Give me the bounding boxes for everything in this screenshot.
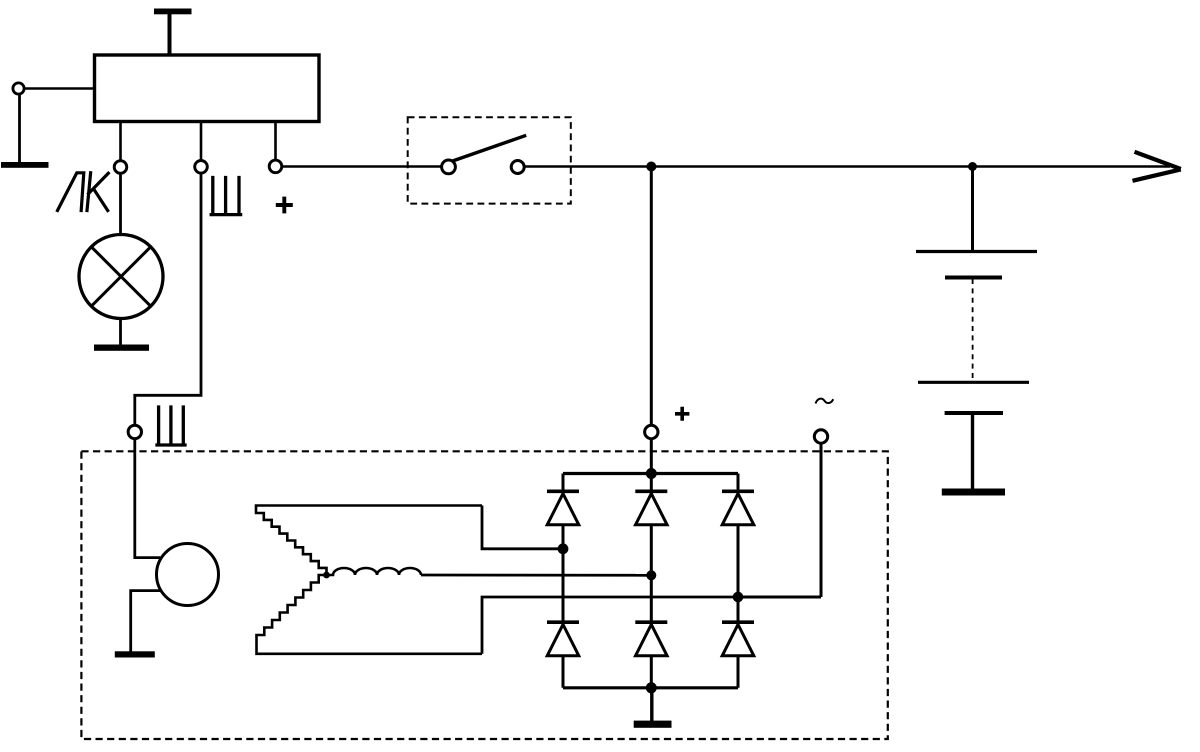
battery GB cell 2 long plate [918,381,1029,384]
wire (bridge plus terminal to top bus) [650,439,653,474]
wire (phase 2 output) [421,574,651,577]
wire (bottom bus) [563,686,738,689]
wire (lower brush to ground) [131,591,161,652]
diode VD3 [722,491,754,525]
battery GB cell 1 long plate [916,250,1037,253]
ground (top, above regulator) [154,9,192,56]
lamp HL [79,235,163,319]
label plus (bridge) [675,407,689,421]
diode VD1 [547,491,579,525]
node (main line / battery branch) [968,162,977,171]
wire (lamp to ground) [119,319,122,346]
node (phase 3 / column 3) [733,592,744,603]
diode VD5 [635,622,667,656]
wire (generator Sh terminal to upper brush) [135,439,160,558]
switch contact right [511,161,524,174]
wire (phase 1 output) [482,506,563,549]
wire (main line down to bridge plus terminal) [650,167,653,426]
wire (plus terminal to switch) [282,165,442,168]
diode VD6 [722,622,754,656]
arrow (output) [1133,152,1181,181]
terminal Sh [195,161,208,174]
regulator box U1 [95,55,320,122]
stator winding phase 3 (lower zigzag) [257,575,483,654]
stator winding phase 1 (upper zigzag) [256,506,482,575]
battery GB cell 1 short plate [945,276,1002,280]
node (top bus / plus) [646,468,657,479]
label plus (regulator) [276,197,293,214]
wire (bottom bus to ground) [650,688,653,721]
wire (stem to Sh terminal) [200,122,203,161]
diode VD2 [635,491,667,525]
terminal Sh (generator) [128,425,141,438]
terminal tilde [814,430,827,443]
rotor slip ring [157,544,219,606]
wire (tilde branch to third column) [738,596,821,599]
terminal (regulator left) [13,83,24,94]
wire (battery internal, dashed) [972,279,974,382]
label Sh (generator) [157,407,185,445]
terminal plus [269,160,282,173]
ground (rotor) [115,651,155,657]
wire (LK terminal to lamp) [119,173,122,235]
ground (battery) [942,489,1005,496]
ground (rectifier) [634,721,672,728]
switch contact left [442,160,456,174]
label tilde [816,399,834,404]
label LK [58,173,109,211]
wire (column 1) [562,474,565,688]
ground (below lamp) [94,345,149,351]
battery GB cell 2 short plate [945,411,1003,415]
wire (left terminal down) [18,94,21,162]
wire (stem to LK terminal) [119,122,122,161]
generator dashed box [81,451,887,739]
wire (column 3) [737,474,740,688]
label Sh (regulator) [211,178,240,215]
node (main line / rectifier branch) [646,162,656,172]
wire (left terminal to box) [24,87,94,90]
stator winding phase 2 (coil) [327,568,422,575]
terminal LK [114,161,127,174]
wire (switch to arrow, main line) [524,165,1170,168]
wire (main line to battery) [971,167,974,252]
terminal plus (bridge) [645,425,658,438]
wire (stem to plus terminal) [274,122,277,161]
wire (regulator Sh terminal down) [135,173,201,425]
wire (column 2) [650,474,653,688]
diode VD4 [547,622,579,656]
wire (tilde terminal down) [820,443,823,597]
wire (top bus) [563,472,738,475]
switch S1 dashed box [408,117,571,203]
node (star point) [323,572,330,579]
node (bottom bus / ground) [646,682,657,693]
wire (battery to ground) [971,413,974,489]
switch lever [453,135,527,161]
wire (phase 3 output) [482,597,738,654]
ground (left of regulator) [1,162,49,168]
node (phase 1 / column 1) [558,543,569,554]
node (phase 2 / column 2) [646,570,656,580]
